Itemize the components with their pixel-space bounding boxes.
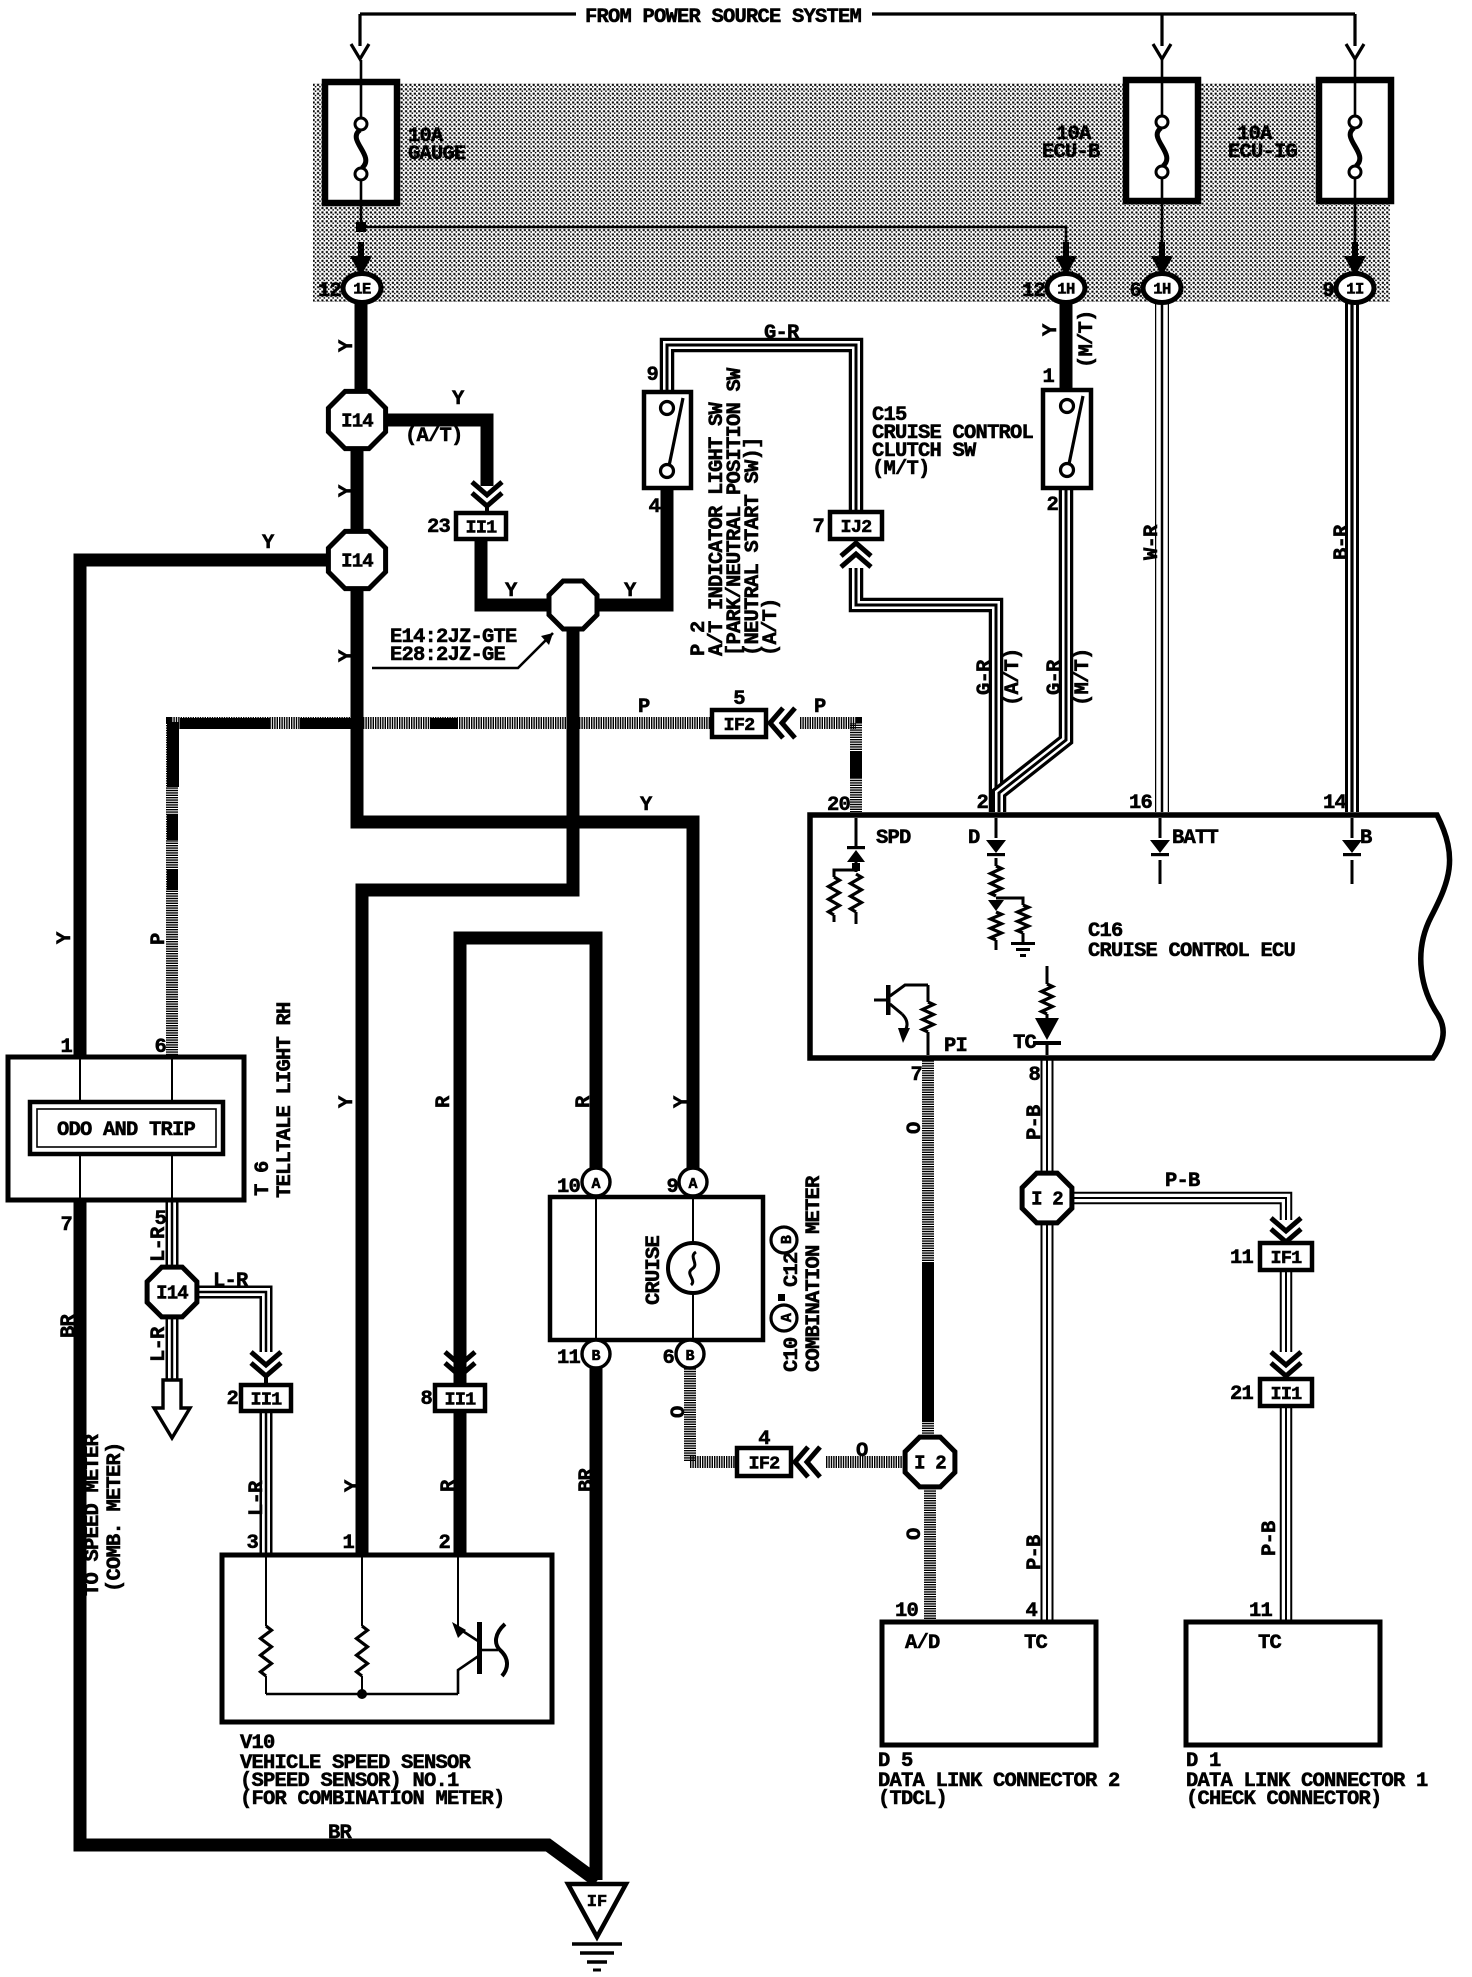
svg-text:1H: 1H [1153, 281, 1171, 299]
svg-text:I14: I14 [156, 1283, 188, 1305]
svg-text:(M/T): (M/T) [1072, 648, 1095, 706]
svg-text:IJ2: IJ2 [841, 517, 873, 538]
svg-text:(TDCL): (TDCL) [878, 1788, 947, 1811]
svg-text:L-R: L-R [148, 1226, 171, 1262]
wire L-R I14 right to II1-2 [195, 1292, 266, 1352]
svg-text:(COMB. METER): (COMB. METER) [104, 1442, 127, 1592]
svg-text:10: 10 [895, 1600, 919, 1623]
svg-text:II1: II1 [251, 1390, 283, 1411]
wire W-R 1H connector to ECU pin16 [1155, 300, 1169, 812]
svg-text:TC: TC [1258, 1632, 1282, 1655]
fuse 10A GAUGE [325, 82, 397, 203]
blob on O wire [922, 1262, 934, 1422]
wire Y octagon E14 to P2 pin4 [595, 489, 667, 605]
svg-text:B-R: B-R [1331, 524, 1354, 560]
svg-text:B: B [779, 1235, 796, 1244]
wire O combination meter pin6 to IF2-4 [690, 1366, 737, 1462]
wire P-B I2 junction to D5 pin4 [1041, 1222, 1054, 1622]
svg-text:23: 23 [427, 516, 451, 539]
wire Y I14 left to T6 pin1 [80, 560, 352, 1060]
svg-text:CRUISE CONTROL ECU: CRUISE CONTROL ECU [1088, 940, 1296, 963]
junction I2 upper [1022, 1173, 1072, 1223]
pin circle 9A [679, 1168, 707, 1196]
svg-text:21: 21 [1230, 1383, 1254, 1406]
svg-text:(CHECK CONNECTOR): (CHECK CONNECTOR) [1186, 1788, 1382, 1811]
svg-text:ECU-IG: ECU-IG [1228, 141, 1298, 164]
svg-text:BR: BR [576, 1467, 599, 1492]
svg-text:O: O [904, 1528, 927, 1540]
svg-text:6: 6 [154, 1036, 166, 1059]
chevrons into II1-23 [472, 482, 502, 495]
svg-text:5: 5 [733, 688, 745, 711]
svg-text:G-R: G-R [1044, 659, 1067, 695]
svg-text:A: A [779, 1313, 796, 1322]
connector IJ2-7 [830, 512, 882, 539]
svg-text:IF2: IF2 [724, 715, 756, 736]
junction I14 telltale [147, 1267, 197, 1317]
svg-text:G-R: G-R [764, 322, 800, 345]
feed drop to fuse GAUGE [358, 14, 361, 46]
svg-text:11: 11 [557, 1347, 581, 1370]
connector II1-2 [241, 1385, 291, 1411]
svg-text:12: 12 [318, 280, 342, 303]
ECU D branch resistor to ground [996, 898, 1023, 905]
ground symbol [572, 1942, 622, 1946]
chevrons below IJ2-7 [841, 543, 871, 556]
svg-text:(A/T): (A/T) [1002, 648, 1025, 706]
svg-text:16: 16 [1129, 792, 1153, 815]
ECU BATT input diode [1159, 818, 1162, 838]
svg-text:P-B: P-B [1165, 1170, 1200, 1193]
svg-text:L-R: L-R [213, 1270, 249, 1293]
connector II1-23 [456, 513, 506, 539]
svg-text:Y: Y [54, 931, 77, 944]
ECU PI transistor [874, 999, 888, 1002]
pin circle 10A [582, 1168, 610, 1196]
svg-text:Y: Y [640, 794, 653, 817]
blob on P wire [850, 752, 862, 778]
combination meter cruise box [550, 1197, 763, 1340]
connector IF2-5 [712, 710, 766, 737]
svg-text:12: 12 [1022, 280, 1046, 303]
wire L-R II1-2 to V10 pin3 [260, 1412, 273, 1555]
ODO AND TRIP box [30, 1102, 223, 1154]
wire Y I14 right to II1-23 [378, 420, 487, 486]
wire Y I14 down to combination meter pin9 [357, 582, 693, 1172]
svg-text:9: 9 [666, 1176, 678, 1199]
switch C15 cruise control clutch sw [1043, 390, 1091, 488]
svg-text:W-R: W-R [1141, 524, 1164, 560]
svg-text:P-B: P-B [1024, 1105, 1047, 1140]
svg-text:(A/T): (A/T) [760, 598, 783, 656]
svg-text:(FOR COMBINATION METER): (FOR COMBINATION METER) [240, 1788, 505, 1811]
svg-text:P: P [814, 696, 826, 719]
svg-text:II1: II1 [445, 1390, 477, 1411]
svg-text:B: B [591, 1348, 600, 1365]
D5 data link connector box [882, 1622, 1096, 1745]
svg-text:C12: C12 [781, 1252, 804, 1287]
V10 internal wires [265, 1555, 267, 1626]
wire O IF2-4 to I2 junction [826, 1456, 905, 1468]
svg-text:2: 2 [226, 1388, 238, 1411]
wire G-R C15 pin2 to ECU pin2 [999, 488, 1066, 812]
svg-text:1E: 1E [353, 281, 371, 299]
wire fuse ECU-B lead [1161, 58, 1164, 260]
V10 vehicle speed sensor box [222, 1555, 552, 1722]
svg-text:1H: 1H [1057, 281, 1075, 299]
svg-text:Y: Y [452, 388, 465, 411]
svg-text:Y: Y [671, 1095, 694, 1108]
svg-text:IF2: IF2 [749, 1454, 781, 1475]
V10 resistor 1 [261, 1626, 272, 1676]
wire Y below II1-23 to octagon E14 [481, 538, 552, 605]
svg-text:COMBINATION METER: COMBINATION METER [803, 1175, 826, 1372]
svg-text:Y: Y [336, 1095, 359, 1108]
wire B-R 1I connector to ECU pin14 [1345, 300, 1359, 812]
T6 internal wires [79, 1057, 81, 1102]
ECU PI resistor [927, 985, 930, 1002]
svg-text:A: A [591, 1176, 600, 1193]
svg-text:L-R: L-R [148, 1326, 171, 1362]
chevrons into II1-8 [445, 1352, 475, 1365]
svg-text:TO SPEED METER: TO SPEED METER [82, 1433, 105, 1596]
svg-text:I14: I14 [341, 411, 373, 433]
svg-text:9: 9 [1322, 280, 1334, 303]
svg-text:R: R [573, 1095, 596, 1108]
svg-text:(M/T): (M/T) [1076, 310, 1099, 368]
svg-text:8: 8 [420, 1388, 432, 1411]
svg-text:Y: Y [336, 484, 359, 497]
connector 9(1I) [1336, 274, 1374, 303]
svg-text:A/D: A/D [905, 1632, 940, 1655]
pin circle 6B [676, 1340, 704, 1368]
D1 data link connector box [1186, 1622, 1380, 1745]
svg-text:C10: C10 [781, 1337, 804, 1372]
svg-text:Y: Y [336, 339, 359, 352]
svg-text:P: P [148, 933, 171, 945]
svg-text:7: 7 [910, 1064, 922, 1087]
svg-text:6: 6 [1129, 280, 1141, 303]
wire BR T6 pin7 to ground IF [80, 1198, 597, 1881]
arrow into 1E connector [358, 242, 364, 260]
svg-text:Y: Y [1040, 323, 1063, 336]
V10 transistor [452, 1622, 466, 1638]
svg-text:B: B [1360, 827, 1372, 850]
wire P-B IF1-11 to II1-21 [1280, 1271, 1293, 1352]
svg-text:4: 4 [758, 1428, 770, 1451]
fuse 10A ECU-B [1126, 80, 1198, 201]
wire Y octagon E14 down to V10 pin1 [362, 628, 573, 1555]
svg-text:I 2: I 2 [914, 1453, 946, 1475]
wire R V10 pin2 to combination meter pin10 [460, 938, 596, 1555]
hollow arrow to speed meter [154, 1380, 190, 1438]
svg-text:Y: Y [342, 1479, 365, 1492]
svg-text:T 6: T 6 [252, 1161, 275, 1196]
svg-text:CRUISE: CRUISE [643, 1235, 666, 1305]
svg-text:(A/T): (A/T) [405, 425, 463, 448]
T6 telltale light box [8, 1057, 244, 1200]
ECU SPD input diode [855, 818, 858, 848]
svg-text:ECU-B: ECU-B [1042, 141, 1100, 164]
chevrons into IF1-11 [1271, 1218, 1301, 1231]
V10 resistor 2 [357, 1626, 368, 1676]
chevrons left of IF2-4 [795, 1447, 808, 1477]
svg-text:O: O [856, 1440, 868, 1463]
svg-text:IF1: IF1 [1271, 1248, 1303, 1269]
svg-text:BR: BR [58, 1313, 81, 1338]
wire G-R P2 pin9 to IJ2-7 [667, 345, 856, 512]
svg-text:7: 7 [60, 1214, 72, 1237]
wire junction to 1H connector [361, 227, 1066, 258]
connector IF1-11 [1260, 1243, 1312, 1270]
svg-text:D: D [968, 827, 980, 850]
svg-text:2: 2 [1046, 494, 1058, 517]
svg-text:G-R: G-R [974, 659, 997, 695]
svg-text:P: P [638, 696, 650, 719]
svg-text:IF: IF [587, 1893, 607, 1912]
wire L-R T6 pin5 to I14 [166, 1198, 179, 1268]
V10 bottom rail [266, 1693, 458, 1695]
svg-text:Y: Y [336, 649, 359, 662]
wire BR combination meter pin11 to ground IF [590, 1366, 603, 1880]
svg-text:8: 8 [1028, 1064, 1040, 1087]
svg-text:II1: II1 [1271, 1384, 1303, 1405]
wire P-B I2 to IF1-11 [1070, 1198, 1286, 1220]
wire fuse ECU-IG lead [1354, 58, 1357, 260]
power source halftone band [313, 83, 1390, 302]
wire Y between I14 junctions [351, 440, 364, 545]
arrow into 1H-12 connector [1063, 242, 1069, 260]
svg-text:R: R [438, 1479, 461, 1492]
svg-text:1: 1 [1042, 366, 1054, 389]
wire P IF2-5 to ECU pin20 [800, 723, 856, 812]
svg-text:11: 11 [1249, 1600, 1273, 1623]
junction dot [356, 222, 366, 232]
junction I2 lower [905, 1437, 955, 1487]
connector IF2-4 [737, 1448, 791, 1476]
junction I14 upper [328, 391, 385, 448]
connector II1-21 [1260, 1379, 1312, 1406]
wire P-B ECU pin8 to I2 junction [1041, 1058, 1054, 1174]
arrow into 1I connector [1352, 242, 1358, 260]
ECU SPD resistor pair [834, 870, 856, 877]
svg-text:7: 7 [812, 516, 824, 539]
svg-text:2: 2 [976, 792, 988, 815]
svg-text:A: A [688, 1176, 697, 1193]
ECU D diode 2 [988, 900, 1004, 911]
svg-text:P-B: P-B [1024, 1535, 1047, 1570]
cruise internal wires [595, 1197, 597, 1340]
junction I14 lower [328, 531, 385, 588]
svg-text:1: 1 [60, 1036, 72, 1059]
feed drop to fuse ECU-IG [1353, 14, 1356, 46]
wire O I2 junction to D5 pin10 [924, 1488, 936, 1622]
wire Y 1H connector to C15 pin1 [1060, 300, 1073, 392]
svg-text:9: 9 [646, 364, 658, 387]
pin circle 11B [582, 1340, 610, 1368]
svg-text:BR: BR [328, 1822, 353, 1845]
junction E14/E28 octagon [549, 581, 597, 629]
svg-text:E28:2JZ-GE: E28:2JZ-GE [390, 644, 506, 667]
svg-text:I 2: I 2 [1031, 1189, 1063, 1211]
connector 12(1H) [1047, 274, 1085, 303]
cruise lamp [668, 1243, 718, 1293]
svg-text:(M/T): (M/T) [872, 458, 930, 481]
chevrons into II1-21 [1271, 1352, 1301, 1365]
fuse 10A ECU-IG [1319, 80, 1391, 201]
svg-text:1I: 1I [1346, 281, 1364, 299]
ECU D resistor 1 [995, 858, 998, 866]
ECU D resistor 2 [991, 912, 1002, 940]
connector 6(1H) [1143, 274, 1181, 303]
svg-text:1: 1 [342, 1532, 354, 1555]
feed drop to fuse ECU-B [1160, 14, 1163, 46]
svg-text:Y: Y [505, 580, 518, 603]
svg-text:Y: Y [262, 532, 275, 555]
svg-text:B: B [685, 1348, 694, 1365]
wire L-R I14 down arrow to speedometer [166, 1316, 179, 1382]
svg-text:4: 4 [1025, 1600, 1037, 1623]
wire O ECU pin7 to I2 junction [922, 1058, 934, 1436]
wire P-B II1-21 to D1 pin11 [1280, 1406, 1293, 1622]
svg-text:L-R: L-R [246, 1480, 269, 1516]
svg-text:SPD: SPD [876, 827, 911, 850]
wire Y oval 1E to I14 [355, 300, 368, 400]
svg-text:TC: TC [1013, 1032, 1037, 1055]
ECU B input diode [1351, 818, 1354, 838]
svg-text:FROM POWER SOURCE SYSTEM: FROM POWER SOURCE SYSTEM [585, 6, 862, 29]
wire P T6 pin6 to IF2-5 [172, 723, 710, 1060]
svg-text:20: 20 [827, 794, 851, 817]
svg-text:6: 6 [662, 1347, 674, 1370]
power feed line FROM POWER SOURCE SYSTEM [360, 12, 576, 15]
ground IF triangle [568, 1884, 626, 1937]
svg-text:II1: II1 [466, 518, 498, 539]
ECU D input diode [995, 818, 998, 838]
svg-text:O: O [668, 1406, 691, 1418]
svg-text:10: 10 [557, 1176, 581, 1199]
svg-text:4: 4 [648, 496, 660, 519]
svg-text:P-B: P-B [1259, 1521, 1282, 1556]
svg-text:R: R [433, 1095, 456, 1108]
connector II1-8 [435, 1385, 485, 1411]
chevrons left of IF2-5 [770, 708, 783, 738]
svg-text:TC: TC [1024, 1632, 1048, 1655]
connector 12(1E) [343, 274, 381, 303]
ECU TC resistor and zener [1046, 966, 1049, 984]
svg-text:2: 2 [438, 1532, 450, 1555]
svg-text:14: 14 [1323, 792, 1347, 815]
svg-text:3: 3 [246, 1532, 258, 1555]
chevrons into II1-2 [251, 1352, 281, 1365]
svg-text:PI: PI [944, 1035, 967, 1058]
svg-text:ODO AND TRIP: ODO AND TRIP [57, 1119, 196, 1142]
wire fuse GAUGE to junction [360, 60, 363, 230]
svg-text:BATT: BATT [1172, 827, 1219, 850]
svg-text:11: 11 [1230, 1247, 1254, 1270]
svg-text:Y: Y [624, 580, 637, 603]
ECU C16 cruise control ecu box [810, 815, 1450, 1058]
svg-text:GAUGE: GAUGE [408, 143, 466, 166]
arrow into 1H-6 connector [1159, 242, 1165, 260]
svg-text:I14: I14 [341, 551, 373, 573]
wire G-R IJ2-7 to ECU pin2 [856, 568, 996, 812]
svg-text:TELLTALE LIGHT RH: TELLTALE LIGHT RH [274, 1002, 297, 1198]
svg-text:O: O [904, 1122, 927, 1134]
switch P2 park/neutral position sw [644, 392, 691, 488]
